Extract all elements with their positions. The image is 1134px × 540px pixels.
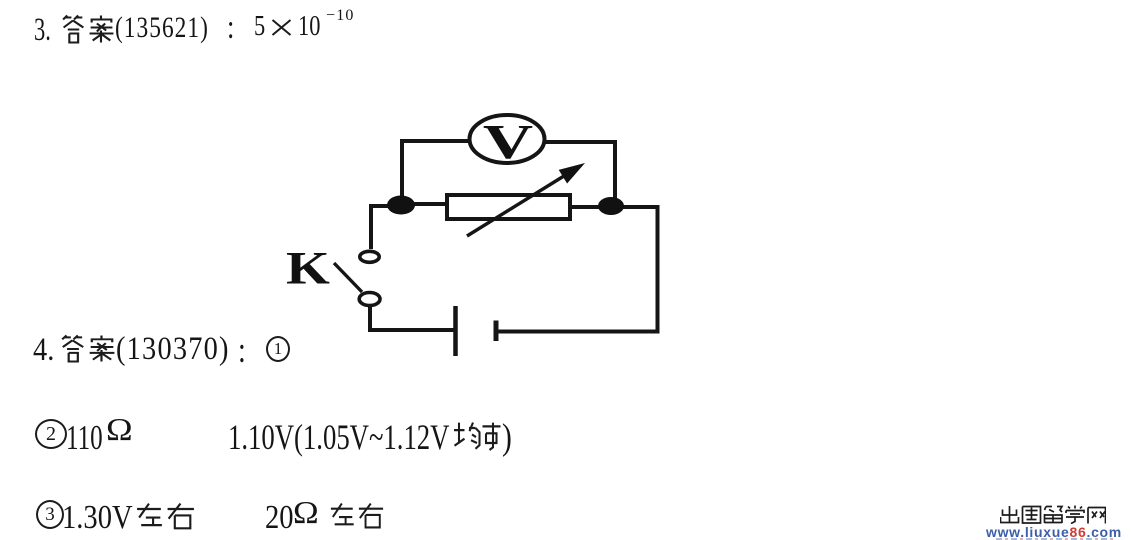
hanzi ZUO-YOU (first)	[135, 502, 196, 535]
line 4 label "4."	[33, 334, 58, 367]
svg-text:K: K	[286, 243, 330, 295]
hanzi JUN-KE	[452, 421, 501, 455]
wire left vertical upper	[400, 139, 404, 200]
wire left dot to rheostat	[408, 202, 447, 206]
hanzi ZUO-YOU (second)	[329, 502, 385, 534]
site url	[986, 525, 1122, 539]
value 110 ohm	[66, 420, 117, 455]
value 1.10V range	[228, 419, 526, 455]
wire bottom right and right vertical	[496, 207, 658, 332]
hanzi DA-AN (line3)	[60, 14, 115, 48]
circled 1	[266, 336, 290, 362]
svg-text:V: V	[483, 115, 533, 170]
switch lever	[334, 263, 362, 292]
wire right vertical upper	[613, 140, 617, 200]
value 20 ohm	[265, 501, 299, 535]
battery long plate	[453, 306, 458, 356]
battery short plate	[494, 321, 499, 342]
line 3 number	[115, 13, 235, 43]
wire top left horizontal	[402, 139, 470, 143]
node left junction	[387, 196, 415, 215]
wire rheostat to right dot	[570, 205, 605, 209]
rheostat arrow shaft	[467, 171, 572, 236]
value 1.30V	[62, 501, 146, 535]
wire left dot to switch	[371, 206, 395, 249]
voltmeter U1	[470, 115, 545, 163]
rheostat arrow head	[559, 163, 585, 184]
line 4 number	[116, 333, 248, 366]
wire below switch to bottom	[370, 306, 455, 330]
wire top right horizontal	[544, 140, 617, 144]
site logo CHU-GUO-LIU-XUE-WANG	[1000, 505, 1106, 528]
line 3 label "3."	[34, 14, 59, 47]
switch upper contact	[360, 251, 379, 262]
rheostat R1 body	[447, 195, 570, 219]
switch lower contact	[359, 293, 380, 306]
node right junction	[598, 197, 624, 215]
formula 5x10^-10	[254, 13, 268, 41]
bottom cut-off strip	[996, 538, 1116, 540]
circled 2	[35, 419, 67, 449]
hanzi DA-AN (line4)	[59, 334, 116, 367]
circled 3	[36, 500, 64, 529]
